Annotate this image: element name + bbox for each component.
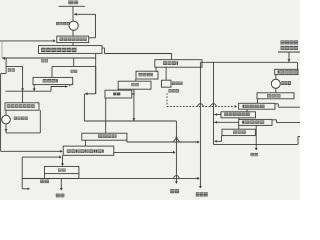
wire recycle from box1 <box>89 37 96 39</box>
node 集矿箱 label <box>172 82 175 85</box>
wire left riser to box1 <box>1 41 3 58</box>
box 磁选柱 <box>222 129 255 135</box>
box 二次分级旋流器 <box>5 103 39 110</box>
box 浮选机Ⅱ <box>82 133 127 140</box>
wire small box feed <box>165 67 167 80</box>
wire overflow step <box>102 47 105 49</box>
node 排矿口 label <box>168 89 171 92</box>
wire overflow long line <box>79 177 198 179</box>
wire mag1 to demag <box>275 75 277 80</box>
box 集矿箱 small <box>162 80 172 87</box>
wire right input baseline <box>278 51 300 53</box>
wire L1 horizontal <box>2 57 96 59</box>
box 一次分级旋流器 <box>57 36 89 43</box>
box 脱水槽 <box>257 93 294 99</box>
wire demag to tank <box>275 88 277 93</box>
box 二段磁选机 <box>239 103 275 109</box>
wire sieve left out <box>214 114 222 116</box>
wire hmag3 feed <box>171 54 173 60</box>
box 扫选 <box>118 81 151 89</box>
node 溢流水 label <box>196 192 200 196</box>
box 高磁机Ⅱ <box>136 71 158 79</box>
wire recycle riser <box>95 14 97 38</box>
node 磁选尾矿 label <box>281 40 285 44</box>
wire dashed to mag2 <box>167 106 234 108</box>
mill circle 一次磨矿 <box>69 21 78 30</box>
wire flot1 right out <box>114 151 174 153</box>
wire x95 down <box>95 66 97 93</box>
wire regrind bottom <box>6 132 40 134</box>
wire collector upper <box>51 86 68 88</box>
wire drop x22 to collector <box>22 66 24 91</box>
wire sieve to mag3 <box>238 118 240 120</box>
wire feed drop to mill <box>72 6 74 21</box>
wire mag3 tails right <box>272 119 277 121</box>
wire scav to midmag <box>117 89 119 90</box>
wire mill to box1 <box>72 30 74 36</box>
wire conc box left down <box>44 174 46 179</box>
node mid stream label <box>71 70 74 73</box>
wire tank to mag2 <box>257 99 259 104</box>
wire filter line <box>22 178 79 180</box>
wire conc R drop <box>255 125 257 149</box>
box 一段磁选机 <box>275 69 298 74</box>
wire overflow vertical <box>199 62 201 187</box>
wire hmag1 corner drop <box>69 85 71 87</box>
wire H2 y66 <box>52 65 96 67</box>
wire box2 underflow drop <box>95 53 97 93</box>
box 高磁机Ⅲ <box>155 60 202 67</box>
wire hmag3 to hmag2 <box>155 67 157 72</box>
wire hop overflow over tails <box>174 176 180 179</box>
wire tails drop <box>175 121 177 183</box>
wire flot1 feed arrow <box>1 150 61 152</box>
wire midmag feed arrow <box>132 93 134 95</box>
wire collector step <box>50 87 52 92</box>
wire scav tails drop <box>133 89 135 121</box>
box 中磁 <box>105 90 132 98</box>
wire mid return arrow <box>22 156 60 158</box>
node 粗磁 label2 <box>8 68 11 71</box>
box 高频振动筛 <box>221 112 256 118</box>
node 尾矿 label <box>170 189 174 193</box>
wire tails header y121 <box>84 120 176 122</box>
box 粗粒分级旋流器 <box>39 46 103 54</box>
node 一次磨矿 label <box>56 22 59 25</box>
wire hmag1 feed <box>51 66 53 77</box>
wire midmag conc drop <box>105 98 107 121</box>
wire mag2 tails right <box>275 103 278 105</box>
node 精矿 L label <box>56 194 60 198</box>
wire right feed drop <box>288 52 290 62</box>
wire return feed into box1 <box>0 40 54 42</box>
wire mag2 to sieve <box>246 109 248 112</box>
wire collector line y91 <box>6 90 52 92</box>
node 精矿 R label <box>251 153 254 156</box>
wire mag3 to column <box>238 125 240 129</box>
wire to overflow drop <box>127 141 198 143</box>
wire mag3 left out <box>214 121 239 123</box>
wire trunk vertical <box>213 62 215 144</box>
wire box1 to box2 <box>72 43 74 46</box>
wire mid return drop <box>21 157 23 189</box>
wire flot1 to thickener <box>62 155 64 166</box>
wire flot2 step <box>126 140 128 142</box>
wire bottom return line <box>214 143 299 145</box>
wire stub to left edge <box>1 73 7 75</box>
wire dashed riser <box>166 93 168 106</box>
box 浓缩 <box>45 166 79 173</box>
wire recycle return arm <box>74 13 96 15</box>
wire regrind down <box>5 110 7 115</box>
wire regrind below circle <box>5 124 7 133</box>
node 二次磨矿 label <box>14 117 17 120</box>
wire hmag1 conc drop <box>33 85 35 91</box>
wire conc box right down <box>78 174 80 179</box>
wire H2 up-link <box>73 58 75 66</box>
mill circle 二次磨矿 <box>2 115 11 124</box>
wire regrind riser <box>39 110 41 133</box>
wire feed header <box>59 5 85 7</box>
node 粗磁 stream label <box>41 59 44 62</box>
wire dashed hop1 <box>198 104 204 107</box>
wire hop over tails <box>174 139 180 142</box>
wire mid arrow left <box>85 93 96 95</box>
node 脱磁器 label <box>281 81 284 85</box>
wire mag1 feed <box>297 62 299 69</box>
wire drop x6 <box>5 58 7 74</box>
box 浮选Ⅰ精Ⅰ精Ⅱ <box>63 146 114 155</box>
node 收尘精矿 label <box>281 46 285 50</box>
wire flot1 feed drop <box>85 140 87 146</box>
wire branch y66 <box>6 65 23 67</box>
wire mid return stub <box>22 188 29 190</box>
wire column out arrow <box>215 140 222 142</box>
wire right header <box>200 61 297 63</box>
box 三段磁选机 <box>239 119 272 125</box>
wire box4 feed <box>22 91 24 103</box>
box 高磁机Ⅰ <box>33 77 73 84</box>
wire conc L out drop <box>60 179 62 190</box>
wire dashed hop2 <box>211 104 217 107</box>
node 过滤 label <box>40 180 44 184</box>
wire drop x84 <box>83 94 85 121</box>
wire column out drop <box>221 136 223 142</box>
wire flot2 feed <box>105 121 107 133</box>
wire left edge long drop <box>0 74 2 152</box>
circle 脱磁器 <box>271 79 280 88</box>
wire hmag2 to scav box <box>135 79 137 81</box>
node 原矿 label <box>68 1 73 5</box>
